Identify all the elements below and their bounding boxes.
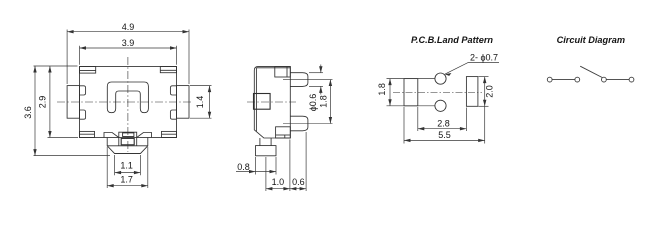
arrowheads 1.8p [388,79,391,86]
stem tip bottom [115,153,141,155]
right wing terminal [177,86,190,119]
svg-text:ϕ0.6: ϕ0.6 [308,94,318,112]
dim phi0.6 extension lines [309,72,323,74]
svg-text:2.0: 2.0 [484,85,494,98]
dim 1.7 line [107,185,148,187]
dim 1.4 line [209,86,211,119]
dim 0.8 line [236,171,276,173]
circuit terminal 4 [629,77,634,82]
arrowheads 5.5 [404,139,411,142]
svg-text:1.8: 1.8 [377,83,387,96]
dim 1.1 extension lines [114,155,116,175]
svg-text:3.9: 3.9 [122,38,135,48]
centerline horizontal (top view) [57,101,193,103]
land pattern centerline [393,92,482,94]
circuit terminal 1 [547,77,552,82]
arrowheads 3.6 [33,66,36,73]
side view cover line under top [257,67,290,69]
leader 2-phi0.7 [445,63,499,75]
land pattern right pad [466,77,478,107]
arrowheads 2.9 [48,66,51,73]
svg-text:0.8: 0.8 [237,162,250,172]
arrowheads 4.9 [67,30,74,33]
side view centerline [247,101,296,103]
stem tab left (bottom edge) [104,133,119,138]
svg-text:1.0: 1.0 [272,177,285,187]
arrowheads 1.0 [266,187,273,190]
dim 5.5 extension line left [403,107,405,144]
svg-text:1.8: 1.8 [319,95,329,108]
svg-text:4.9: 4.9 [122,22,135,32]
dim 1.1 line [115,172,141,174]
arrowheads 0.6s [290,187,297,190]
dim 2.9 extension line bottom [48,137,79,139]
dim phi0.6 line [320,65,322,73]
arrowhead leader [445,73,452,76]
dim 2.9 line [49,66,51,138]
dim 1.8p extension lines [387,78,436,80]
dim 0.6s extension [305,132,307,191]
dim 1.0 extension [265,157,267,191]
inner bump left-bottom [80,110,86,119]
svg-text:5.5: 5.5 [438,130,451,140]
arrowheads 2.8 [418,127,425,130]
side view top terminal lead [290,73,308,87]
dim 4.9 line [67,31,189,33]
dim 3.6 line [34,66,36,156]
left wing terminal [67,86,79,119]
svg-text:2.8: 2.8 [437,119,450,129]
arrowheads phi0.6 [319,66,322,73]
svg-text:1.4: 1.4 [195,96,205,109]
dim 2.8 line [418,128,467,130]
top lead centerline [283,79,333,81]
arrowheads 3.9 [80,46,87,49]
corner pad top-left [80,67,96,74]
stem tab right (bottom edge) [137,133,152,138]
arrowheads 0.8 [249,170,256,173]
inner bump left-top [80,86,86,95]
corner pad top-right [160,67,176,73]
side view body outline [254,67,290,138]
central contact staple [107,82,148,113]
dim 1.7 extension lines [106,147,108,188]
dim 2.0 extension lines [479,76,489,78]
dim 3.6 extension lines [34,65,78,67]
arrowheads 1.7 [107,184,114,187]
svg-text:1.1: 1.1 [120,160,133,170]
stem inner rect lower [121,138,134,144]
side view stem tip [256,146,277,156]
dim 2.8 extension lines [417,107,419,131]
svg-text:P.C.B.Land Pattern: P.C.B.Land Pattern [411,35,493,45]
dim 3.9 line [80,47,177,49]
stem column [119,132,137,146]
land pattern hole bottom [435,100,446,111]
inner bump right-bottom [170,110,176,119]
dim 4.9 extension lines [66,30,68,85]
centerline vertical (top view) [127,57,129,152]
side view bottom-right terminal block [276,127,291,138]
arrowheads 1.1 [115,171,122,174]
side view inner wall line [255,68,257,132]
arrowheads 1.4 [208,86,211,93]
wire 3-4 [606,79,629,81]
stem inner rect upper [123,133,134,137]
land pattern hole top [435,73,446,84]
dim 1.8p line [389,79,391,106]
switch lever [580,66,602,77]
side view bottom terminal lead [290,116,308,131]
stem base band [107,138,148,146]
svg-text:1.7: 1.7 [120,174,133,184]
dim 3.9 extension lines [79,46,81,65]
wire 1-2 [552,79,575,81]
top view body outline [80,67,177,138]
inner bump right-top [170,86,176,95]
dim 1.4 extension lines [190,85,212,87]
dim 1.8s line [329,80,331,124]
svg-text:3.6: 3.6 [23,106,33,119]
circuit terminal 2 [575,77,580,82]
arrowheads 2.0 [483,77,486,84]
side view stem neck [260,138,271,146]
svg-text:2.9: 2.9 [38,96,48,109]
circuit terminal 3 [602,77,607,82]
side view wing square [254,94,271,110]
land pattern left pad [404,79,418,106]
dim 5.5 line [404,139,485,141]
dim 2.0 line / 5.5 right extension [484,77,486,144]
corner pad bottom-left [80,131,95,137]
dim 0.6s line [290,188,306,190]
corner pad bottom-right [162,131,177,137]
dim 0.8 extension [255,157,257,175]
svg-text:0.6: 0.6 [292,177,305,187]
dim 1.0 line [266,188,290,190]
arrowheads 1.8s [329,80,332,87]
side view top-right terminal block [275,67,291,77]
bottom lead centerline [283,123,333,125]
svg-text:Circuit Diagram: Circuit Diagram [557,35,625,45]
svg-text:2- ϕ0.7: 2- ϕ0.7 [470,52,498,62]
stem tip trapezoid [107,146,148,154]
